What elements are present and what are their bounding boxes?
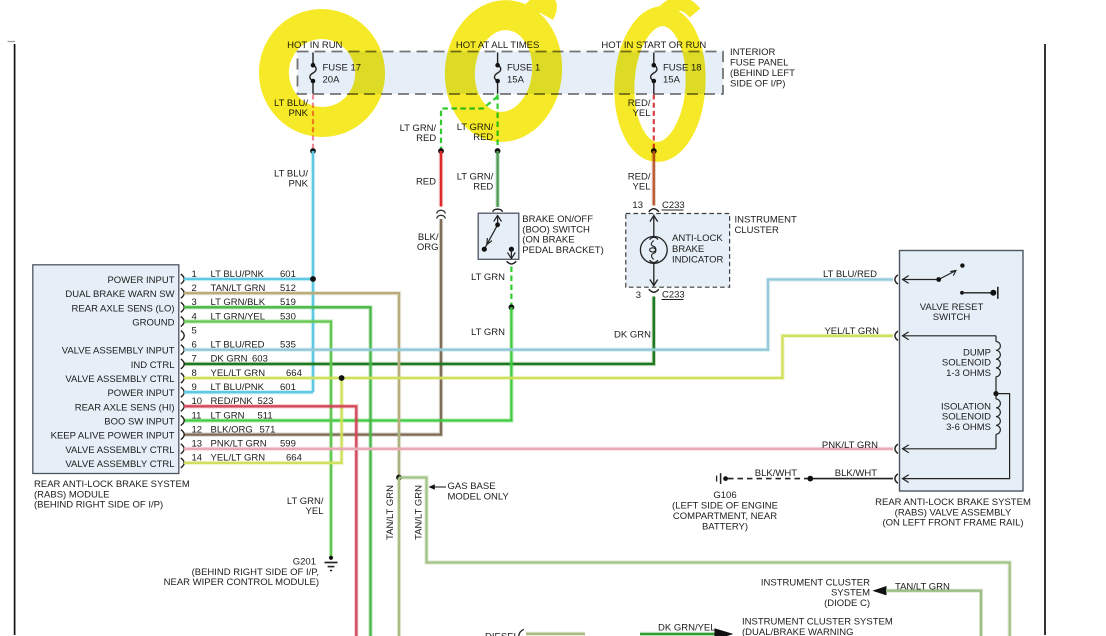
svg-text:20A: 20A	[323, 75, 341, 86]
svg-text:IND CTRL: IND CTRL	[131, 360, 175, 371]
wire pin14 YEL/LT GRN 664 riser	[184, 378, 342, 463]
junction pin8/pin14 node	[339, 375, 345, 381]
wire LT BLU/PNK dashed from fuse 17	[312, 95, 314, 152]
svg-text:DK GRN/YEL: DK GRN/YEL	[658, 622, 716, 633]
svg-text:C233: C233	[662, 200, 685, 211]
wire label RED/YEL upper	[628, 98, 651, 119]
wire label LT GRN/RED left	[400, 123, 437, 144]
junction on LT GRN	[509, 304, 515, 310]
BOO switch box	[478, 213, 519, 259]
svg-text:(DUAL/BRAKE WARNING: (DUAL/BRAKE WARNING	[742, 627, 854, 636]
valve reset switch label	[920, 302, 984, 323]
svg-text:INSTRUMENT: INSTRUMENT	[735, 215, 797, 226]
connector arc below BOO switch	[507, 261, 517, 264]
svg-text:INTERIOR: INTERIOR	[730, 47, 776, 58]
module pin 10 connector	[181, 401, 184, 411]
DK GRN/YEL wire to instrument cluster system	[640, 622, 734, 636]
wire LT GRN solid to module pin 11	[184, 307, 511, 420]
module pin 3 connector	[181, 302, 184, 312]
svg-text:PNK: PNK	[288, 178, 308, 189]
svg-text:RED: RED	[473, 181, 493, 192]
fuse F1	[494, 53, 500, 94]
valve reset pushbutton contact	[960, 287, 998, 299]
wire label BLK/ORG	[417, 232, 439, 253]
svg-text:YEL/LT GRN: YEL/LT GRN	[824, 326, 879, 337]
interior fuse panel box	[298, 52, 724, 95]
svg-text:LT GRN: LT GRN	[471, 272, 505, 283]
svg-text:REAR AXLE SENS (HI): REAR AXLE SENS (HI)	[75, 402, 175, 413]
valve internal entry arrow 1	[903, 276, 939, 284]
svg-text:YEL: YEL	[306, 506, 324, 517]
svg-text:RED: RED	[416, 177, 436, 188]
wire label LT GRN/RED above BOO	[457, 172, 494, 193]
svg-text:BLK/WHT: BLK/WHT	[755, 468, 797, 479]
RABS module caption	[34, 479, 190, 511]
svg-text:511: 511	[258, 410, 273, 421]
wire pin13 PNK/LT GRN 599 to valve assembly	[184, 447, 893, 451]
svg-text:(DIODE C): (DIODE C)	[824, 598, 870, 609]
RABS valve assembly box	[900, 251, 1024, 492]
ground G106 label	[672, 490, 778, 533]
wire RED/YEL dashed from fuse 18	[653, 95, 655, 152]
svg-text:VALVE ASSEMBLY INPUT: VALVE ASSEMBLY INPUT	[62, 346, 175, 357]
module pin 13 connector	[181, 444, 184, 454]
svg-text:COMPARTMENT, NEAR: COMPARTMENT, NEAR	[673, 511, 777, 522]
lamp wire entering cluster with up arrow	[650, 215, 658, 237]
connector C233 lower arc	[649, 289, 659, 292]
wire DK GRN from cluster to module pin 7	[184, 297, 654, 364]
svg-text:POWER INPUT: POWER INPUT	[107, 388, 174, 399]
svg-text:(ON LEFT FRONT FRAME RAIL): (ON LEFT FRONT FRAME RAIL)	[882, 518, 1023, 529]
svg-text:(LEFT SIDE OF ENGINE: (LEFT SIDE OF ENGINE	[672, 501, 778, 512]
instrument cluster system dual/brake warning label	[742, 616, 893, 636]
svg-text:DUAL BRAKE WARN SW: DUAL BRAKE WARN SW	[65, 289, 174, 300]
svg-text:NEAR WIPER CONTROL MODULE): NEAR WIPER CONTROL MODULE)	[164, 577, 319, 588]
wire RED solid	[439, 151, 443, 207]
junction node x497	[495, 148, 501, 154]
anti-lock brake indicator label	[672, 233, 724, 266]
svg-text:11: 11	[192, 410, 202, 421]
svg-text:BRAKE: BRAKE	[672, 244, 704, 255]
page border right	[1044, 44, 1046, 635]
BOO switch exit arrow	[508, 249, 516, 258]
svg-text:KEEP ALIVE POWER INPUT: KEEP ALIVE POWER INPUT	[51, 431, 175, 442]
svg-text:LT GRN: LT GRN	[471, 327, 505, 338]
module pin 8 connector	[181, 373, 184, 383]
svg-text:3-6 OHMS: 3-6 OHMS	[946, 422, 991, 433]
RABS module box	[33, 265, 179, 474]
module pin 5 connector	[181, 331, 184, 341]
svg-text:GROUND: GROUND	[132, 318, 174, 329]
svg-text:INSTRUMENT CLUSTER SYSTEM: INSTRUMENT CLUSTER SYSTEM	[742, 616, 893, 627]
highlighter ring around fuse 17	[265, 15, 379, 131]
svg-text:G106: G106	[713, 490, 736, 501]
svg-text:PEDAL BRACKET): PEDAL BRACKET)	[522, 245, 603, 256]
TAN/LT GRN wire to diode C with arrow	[872, 582, 981, 636]
valve internal branch to BLK/WHT return	[903, 394, 1010, 479]
valve internal entry arrow 3	[903, 445, 997, 453]
svg-text:DK GRN: DK GRN	[614, 330, 651, 341]
svg-text:SWITCH: SWITCH	[933, 312, 971, 323]
module pin 11 connector	[181, 416, 184, 426]
svg-text:TAN/LT GRN: TAN/LT GRN	[385, 485, 396, 540]
lamp exit wire with down arrow	[650, 264, 658, 286]
svg-text:BLK/ORG: BLK/ORG	[211, 424, 253, 435]
BOO switch blade and contacts	[484, 225, 497, 249]
module pin 14 connector	[181, 458, 184, 468]
wire label LT GRN/YEL near G201	[287, 496, 324, 517]
svg-text:BLK/WHT: BLK/WHT	[835, 468, 877, 479]
svg-text:3: 3	[636, 290, 641, 301]
wire BLK/WHT solid to valve assembly	[813, 478, 893, 480]
svg-text:BATTERY): BATTERY)	[702, 522, 748, 533]
wire pin1 LT BLU/PNK 601	[184, 277, 313, 281]
junction node between solenoids	[993, 391, 998, 396]
svg-text:(BEHIND RIGHT SIDE OF I/P): (BEHIND RIGHT SIDE OF I/P)	[34, 500, 163, 511]
module pin 2 connector	[181, 288, 184, 298]
junction node x441	[438, 148, 444, 154]
fuse panel location label	[730, 47, 795, 90]
svg-text:CLUSTER: CLUSTER	[735, 225, 779, 236]
wire LT GRN/RED dashed diagonal branch to x441	[441, 97, 498, 152]
valve reset switch SW1	[939, 271, 956, 280]
valve assembly caption	[875, 497, 1031, 529]
svg-text:FUSE PANEL: FUSE PANEL	[730, 58, 788, 69]
connector arc into BOO switch	[493, 209, 503, 212]
junction node BLK/WHT	[807, 476, 813, 482]
svg-text:ORG: ORG	[417, 242, 439, 253]
wire pin9 LT BLU/PNK 601	[184, 390, 313, 394]
svg-text:VALVE ASSEMBLY CTRL: VALVE ASSEMBLY CTRL	[65, 459, 174, 470]
dump solenoid L1 coil	[996, 336, 1000, 394]
junction pin1/fuse17 node	[310, 276, 316, 282]
svg-text:LT GRN: LT GRN	[211, 410, 245, 421]
wire TAN/LT GRN gas-base branch elbow	[399, 478, 1010, 636]
junction under fuse 17	[310, 148, 316, 154]
wire label RED/YEL lower	[628, 172, 651, 193]
indicator lamp DS1 anti-lock brake indicator	[640, 237, 667, 264]
wire label LT BLU/PNK upper	[274, 98, 309, 119]
module pin 4 connector	[181, 317, 184, 327]
valve internal entry arrow 2	[903, 332, 997, 340]
wire label LT GRN/RED right	[457, 122, 494, 143]
junction under fuse 18	[651, 148, 657, 154]
wire TAN/LT GRN continues to page bottom	[397, 478, 401, 636]
module pin 1 connector	[181, 274, 184, 284]
diesel branch wire	[485, 629, 585, 636]
instrument cluster system diode C label	[761, 577, 870, 609]
top-left page tick	[8, 41, 16, 43]
fuse F17	[310, 53, 316, 94]
svg-text:RED: RED	[416, 133, 436, 144]
wire pin10 RED/PNK 523	[184, 406, 356, 636]
connector C233 upper arc	[649, 209, 659, 212]
highlighter ring around fuse 1	[454, 2, 552, 131]
gas base model only callout	[429, 481, 510, 502]
svg-text:15A: 15A	[507, 75, 525, 86]
module pin 7 connector	[181, 359, 184, 369]
svg-text:VALVE ASSEMBLY CTRL: VALVE ASSEMBLY CTRL	[65, 445, 174, 456]
wire pin4 LT GRN/YEL 530 to G201	[184, 322, 331, 557]
svg-text:YEL: YEL	[633, 181, 651, 192]
svg-text:15A: 15A	[663, 75, 681, 86]
wire BLK/ORG to module pin 12	[184, 219, 441, 435]
svg-text:5: 5	[192, 325, 197, 336]
wire pin6 LT BLU/RED 535 to valve assembly	[184, 280, 893, 350]
BOO switch label	[522, 214, 603, 256]
svg-text:REAR AXLE SENS (LO): REAR AXLE SENS (LO)	[72, 303, 175, 314]
svg-text:VALVE ASSEMBLY CTRL: VALVE ASSEMBLY CTRL	[65, 374, 174, 385]
module pin 12 connector	[181, 430, 184, 440]
wire LT BLU/PNK cyan vertical to module	[311, 151, 315, 392]
instrument cluster dashed box	[626, 214, 730, 288]
svg-text:SIDE OF I/P): SIDE OF I/P)	[730, 79, 785, 90]
svg-text:POWER INPUT: POWER INPUT	[107, 275, 174, 286]
svg-text:ANTI-LOCK: ANTI-LOCK	[672, 233, 723, 244]
svg-text:DIESEL: DIESEL	[485, 631, 519, 636]
svg-text:MODEL ONLY: MODEL ONLY	[448, 491, 510, 502]
wire RED/YEL solid to C233	[652, 151, 656, 206]
svg-text:TAN/LT GRN: TAN/LT GRN	[895, 582, 950, 593]
svg-text:BOO SW INPUT: BOO SW INPUT	[104, 417, 174, 428]
svg-text:12: 12	[192, 424, 203, 435]
svg-text:C233: C233	[662, 290, 685, 301]
wire LT GRN dashed below BOO	[510, 267, 512, 308]
svg-text:603: 603	[252, 354, 268, 365]
svg-text:TAN/LT GRN: TAN/LT GRN	[414, 485, 425, 540]
wire pin8 YEL/LT GRN 664 to valve assembly	[184, 336, 893, 378]
ground G201 symbol	[325, 556, 338, 571]
fuse F18	[651, 53, 657, 94]
svg-text:1-3 OHMS: 1-3 OHMS	[946, 368, 991, 379]
wire pin2 TAN/LT GRN 512	[184, 293, 399, 430]
dump solenoid label	[942, 347, 991, 379]
BOO switch internal entry arrow	[494, 216, 502, 226]
module pin 9 connector	[181, 387, 184, 397]
wire label LT BLU/PNK lower	[274, 169, 309, 190]
svg-text:DK GRN: DK GRN	[211, 354, 248, 365]
wire BLK/WHT dashed from G106	[728, 478, 808, 480]
svg-text:INDICATOR: INDICATOR	[672, 255, 724, 266]
svg-text:7: 7	[192, 354, 197, 365]
wire LT GRN/RED dashed from fuse 1, straight branch	[497, 95, 499, 152]
svg-text:LT BLU/RED: LT BLU/RED	[823, 269, 877, 280]
connector arc valve entry BLK/WHT	[895, 474, 898, 483]
svg-text:571: 571	[260, 424, 276, 435]
connector arc valve entry YEL/LT GRN	[895, 331, 898, 340]
valve internal entry arrow 4	[903, 475, 909, 483]
inline connector chevrons on RED/BLK-ORG wire	[437, 210, 446, 218]
isolation solenoid label	[941, 401, 991, 433]
wire LT GRN/RED solid to BOO switch	[495, 151, 499, 207]
module pin 6 connector	[181, 345, 184, 355]
ground G201 label	[164, 557, 319, 589]
ground G106 symbol	[717, 473, 728, 484]
connector arc valve entry LT BLU/RED	[895, 275, 898, 284]
highlighter ring around fuse 18	[621, 4, 699, 154]
instrument cluster label	[735, 215, 797, 237]
svg-text:(BEHIND LEFT: (BEHIND LEFT	[730, 68, 795, 79]
connector arc valve entry PNK/LT GRN	[895, 444, 898, 453]
isolation solenoid L2 coil	[996, 394, 1000, 449]
wire pin3 LT GRN/BLK 519	[184, 307, 371, 636]
page border left	[14, 44, 16, 635]
junction node TAN/LT GRN split	[396, 475, 402, 481]
svg-text:13: 13	[632, 200, 643, 211]
svg-text:PNK/LT GRN: PNK/LT GRN	[822, 440, 878, 451]
